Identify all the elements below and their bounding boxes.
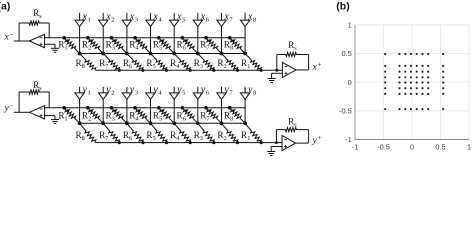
svg-text:0.5: 0.5 — [435, 142, 445, 151]
svg-text:(a): (a) — [0, 0, 10, 12]
svg-text:2: 2 — [224, 63, 227, 70]
svg-text:1: 1 — [88, 17, 91, 24]
svg-text:3: 3 — [112, 45, 115, 52]
svg-text:2: 2 — [111, 90, 114, 97]
svg-text:0: 0 — [410, 142, 414, 151]
svg-text:1: 1 — [88, 90, 91, 97]
svg-text:7: 7 — [105, 135, 108, 142]
svg-text:6: 6 — [183, 116, 186, 123]
svg-text:0: 0 — [348, 78, 352, 87]
svg-text:8: 8 — [230, 45, 233, 52]
svg-text:2: 2 — [111, 17, 114, 24]
svg-text:2: 2 — [88, 116, 91, 123]
svg-text:5: 5 — [153, 63, 156, 70]
svg-text:1: 1 — [247, 63, 250, 70]
svg-text:4: 4 — [176, 63, 179, 70]
svg-text:7: 7 — [206, 45, 209, 52]
svg-text:3: 3 — [200, 135, 203, 142]
svg-text:4: 4 — [176, 135, 179, 142]
svg-text:1: 1 — [247, 135, 250, 142]
svg-text:2: 2 — [224, 135, 227, 142]
svg-text:4: 4 — [135, 45, 138, 52]
svg-text:1: 1 — [348, 21, 352, 30]
svg-text:-0.5: -0.5 — [377, 142, 390, 151]
svg-text:5: 5 — [159, 45, 162, 52]
svg-text:7: 7 — [105, 63, 108, 70]
svg-text:6: 6 — [129, 135, 132, 142]
svg-text:8: 8 — [82, 135, 85, 142]
svg-text:1: 1 — [65, 45, 68, 52]
svg-text:4: 4 — [135, 116, 138, 123]
svg-text:3: 3 — [112, 116, 115, 123]
svg-text:1: 1 — [65, 116, 68, 123]
svg-text:+: + — [318, 61, 322, 69]
svg-text:−: − — [10, 30, 14, 38]
svg-text:(b): (b) — [336, 0, 349, 12]
svg-text:5: 5 — [153, 135, 156, 142]
svg-text:1: 1 — [467, 142, 471, 151]
svg-text:+: + — [318, 134, 322, 142]
svg-text:8: 8 — [82, 63, 85, 70]
svg-text:3: 3 — [200, 63, 203, 70]
svg-text:-0.5: -0.5 — [339, 107, 352, 116]
svg-text:-1: -1 — [352, 142, 359, 151]
svg-text:6: 6 — [183, 45, 186, 52]
svg-text:8: 8 — [230, 116, 233, 123]
svg-text:2: 2 — [88, 45, 91, 52]
svg-text:6: 6 — [129, 63, 132, 70]
svg-text:0.5: 0.5 — [342, 49, 352, 58]
svg-text:7: 7 — [206, 116, 209, 123]
svg-text:−: − — [10, 102, 14, 110]
svg-text:-1: -1 — [345, 135, 352, 144]
svg-text:5: 5 — [159, 116, 162, 123]
